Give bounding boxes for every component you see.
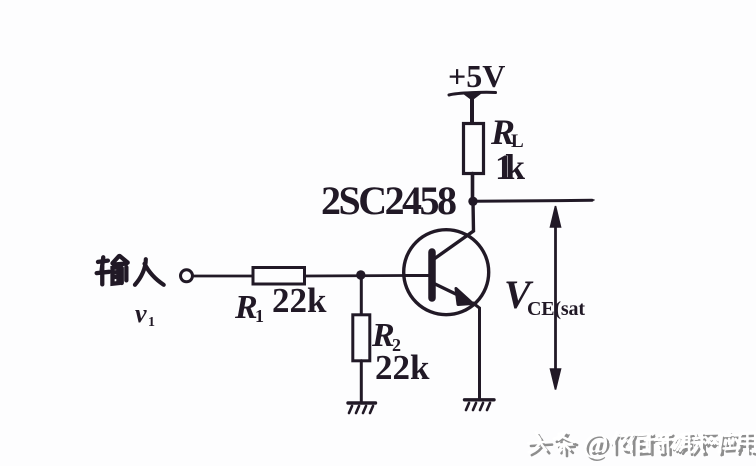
wire: collector output line: [473, 200, 592, 201]
wire: R1 to base node: [305, 274, 405, 277]
watermark 头条@亿佰特物联网应用: [528, 429, 756, 463]
node collector junction: [468, 197, 477, 206]
power rail symbol: [449, 92, 496, 95]
wire: collector lead: [434, 201, 474, 259]
svg-text:CE(sat: CE(sat: [527, 298, 585, 320]
input terminal circle: [181, 270, 193, 282]
wire: emitter down: [473, 303, 480, 398]
resistor R2: [353, 315, 370, 361]
svg-text:22k: 22k: [272, 281, 327, 320]
wire: base node into transistor: [404, 274, 429, 277]
svg-text:1k: 1k: [495, 147, 525, 187]
node base junction: [356, 270, 365, 279]
wire: +5V to RL: [470, 98, 474, 124]
wire: R2 to ground: [360, 361, 363, 403]
wire: input to R1: [193, 275, 253, 278]
ground (emitter): [465, 398, 495, 401]
resistor R1: [253, 268, 305, 285]
svg-text:v: v: [135, 299, 147, 328]
wire: RL to collector node: [471, 174, 475, 203]
transistor emitter lead with arrow: [433, 283, 464, 298]
wire: base node to R2: [360, 275, 363, 315]
svg-text:2SC2458: 2SC2458: [321, 178, 457, 223]
svg-text:+5V: +5V: [448, 58, 505, 94]
transistor base bar: [428, 252, 436, 298]
VCE measure arrow: [554, 214, 557, 378]
svg-text:1: 1: [148, 315, 155, 330]
svg-text:1: 1: [255, 306, 264, 326]
label 输入 (input): [97, 256, 164, 285]
ground (R2): [348, 401, 376, 404]
resistor RL: [464, 124, 484, 174]
transistor Q1 circle: [404, 230, 489, 315]
svg-text:@: @: [583, 429, 609, 460]
svg-text:22k: 22k: [375, 348, 430, 387]
